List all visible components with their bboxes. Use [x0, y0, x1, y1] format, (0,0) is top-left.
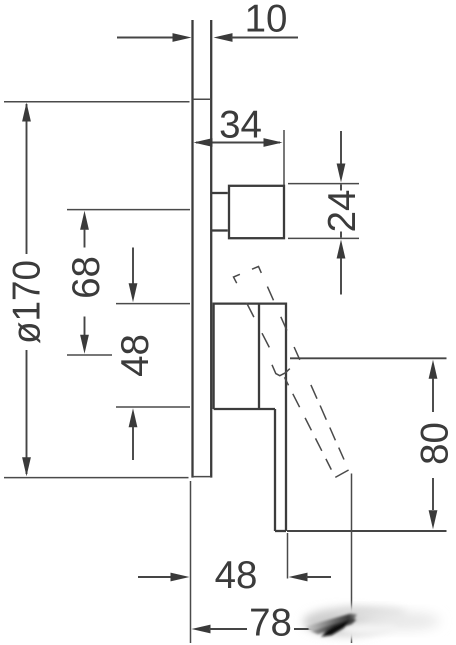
dimension 10 right arrowhead	[214, 33, 233, 42]
watermark smudge dark core band upper	[306, 614, 358, 637]
cartridge connector upper line	[212, 192, 228, 194]
dimension 68 lower stem	[84, 317, 86, 336]
dimension 80 upper arrowhead	[429, 360, 438, 379]
dimension 68 lower arrowhead	[80, 335, 89, 354]
dimension o170 top arrowhead	[22, 103, 31, 122]
dimension 24 upper arrowhead	[337, 164, 346, 183]
plate top inner segment	[193, 98, 212, 100]
spout body left edge	[212, 303, 214, 410]
watermark smudge light grey streak	[303, 607, 440, 636]
dashed handle lever bottom cap	[335, 470, 348, 477]
dimension 48 upper arrowhead	[129, 283, 138, 302]
dimension 10 dimension line right part	[231, 37, 298, 39]
svg-text:78: 78	[249, 602, 292, 645]
dashed handle lever head right corner	[252, 267, 261, 273]
dimension 78 right arrowhead	[332, 625, 351, 634]
extension line bottom 48 right vertical	[287, 533, 289, 579]
dimension 80 lower arrowhead	[429, 510, 438, 529]
handle break squiggle	[272, 365, 290, 376]
extension line 80 top	[290, 357, 447, 359]
dimension 48 lower stem	[132, 427, 134, 461]
handle stub left edge	[274, 409, 276, 531]
plate bottom edge	[193, 476, 212, 478]
extension line handle tip vertical	[351, 474, 353, 644]
dimension 78 right stem	[294, 628, 334, 630]
dimension 68 upper stem	[84, 229, 86, 248]
dimension 34 dimension line	[196, 142, 280, 144]
spout body inner vertical	[258, 304, 260, 409]
dimension o170 line lower part	[26, 350, 28, 474]
dimension 34 extension line vertical	[283, 130, 285, 186]
dimension 24 lower arrowhead	[337, 240, 346, 259]
dimension 24 inner stub top	[340, 185, 342, 191]
spout body right edge	[285, 303, 287, 532]
extension line spout step y407	[116, 406, 190, 408]
dimension 80 lower stem	[432, 478, 434, 510]
svg-text:48: 48	[114, 334, 157, 377]
wall/plate left vertical line	[191, 20, 193, 478]
dimension o170 line upper part	[26, 104, 28, 254]
svg-text:80: 80	[414, 422, 456, 465]
extension line spout top y303	[116, 303, 190, 305]
dimension 48 bottom right stem	[306, 576, 331, 578]
dimension o170 bottom arrowhead	[22, 457, 31, 476]
dashed handle lever head left corner	[234, 274, 240, 283]
dimension 78 line dash visible left of smudge	[294, 628, 309, 630]
svg-text:ø170: ø170	[6, 260, 49, 344]
dimension 24 upper stem	[340, 131, 342, 164]
dimension 48 bottom right arrowhead	[289, 573, 308, 582]
extension line o170 top	[4, 101, 190, 103]
svg-text:48: 48	[215, 554, 258, 597]
watermark smudge opaque eraser patch	[312, 608, 448, 640]
svg-text:10: 10	[245, 0, 288, 41]
dimension 48 bottom left stem	[138, 576, 172, 578]
extension line 80 bottom + spout bottom	[287, 530, 447, 532]
extension line o170 bottom	[4, 477, 189, 479]
svg-text:24: 24	[321, 190, 364, 233]
spout step horizontal	[214, 408, 275, 410]
extension line cartridge centre y209	[67, 209, 190, 211]
dimension 24 extension line top	[288, 183, 359, 185]
dimension 78 left stem	[209, 628, 247, 630]
svg-text:34: 34	[219, 104, 262, 147]
dimension 10 dimension line left part	[117, 37, 174, 39]
dimension 34 left arrowhead	[194, 138, 213, 147]
dimension 10 left arrowhead	[173, 33, 192, 42]
extension line plate bottom vertical	[190, 481, 192, 643]
dimension 24 inner stub bottom	[340, 232, 342, 238]
cartridge connector lower line	[212, 229, 228, 231]
spout body top edge	[214, 302, 286, 304]
svg-text:68: 68	[65, 256, 108, 299]
handle stub bottom edge	[275, 530, 286, 532]
dashed handle lever left side dashes	[247, 303, 332, 470]
cartridge body	[229, 186, 284, 238]
dimension 24 lower stem	[340, 258, 342, 295]
dimension 24 extension line bottom	[288, 237, 359, 239]
dimension 78 left arrowhead	[192, 625, 211, 634]
dimension 48 bottom left arrowhead	[171, 573, 190, 582]
dashed handle lever right side dashes	[267, 287, 344, 460]
dimension 80 upper stem	[432, 378, 434, 412]
dimension 48 lower arrowhead	[129, 408, 138, 427]
dimension 34 right arrowhead	[264, 138, 283, 147]
wall/plate right vertical line	[210, 20, 212, 478]
dimension 48 upper stem	[132, 248, 134, 285]
extension line pivot y355	[67, 354, 112, 356]
dimension 68 upper arrowhead	[80, 211, 89, 230]
